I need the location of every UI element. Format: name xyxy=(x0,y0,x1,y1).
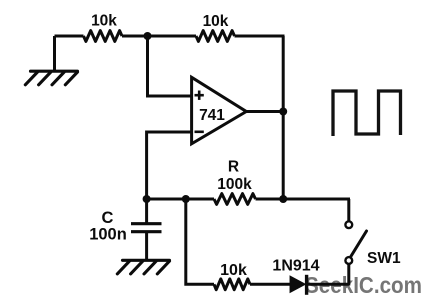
wire: bottom rail to diode xyxy=(250,283,291,286)
wire: GND1 up to top rail xyxy=(53,36,56,71)
op-amp U1 741 triangle xyxy=(192,77,247,144)
wire: down to switch top terminal xyxy=(347,199,350,221)
resistor R 100k xyxy=(214,194,256,205)
node: RC junction xyxy=(143,195,151,203)
wire: top rail left lead xyxy=(55,35,84,38)
wire: non-inverting input (junction down and right to op-amp +) xyxy=(148,36,192,96)
wire: op-amp output to bus xyxy=(246,110,284,113)
wire: middle rail right xyxy=(256,198,351,201)
square wave output symbol xyxy=(333,91,401,136)
capacitor C 100n plates xyxy=(145,199,148,223)
node: junction top rail / non-inverting input xyxy=(144,32,152,40)
ground GND1 (top-left) xyxy=(25,71,77,85)
svg-text:C: C xyxy=(102,209,114,227)
svg-text:10k: 10k xyxy=(220,262,247,279)
svg-text:100n: 100n xyxy=(89,226,127,244)
node: output junction on bus xyxy=(279,108,287,116)
wire: right vertical feedback bus xyxy=(282,36,285,199)
resistor R_C 10k (bottom) xyxy=(214,279,250,290)
ground GND2 (below capacitor) xyxy=(117,260,169,274)
svg-text:SW1: SW1 xyxy=(367,250,401,267)
node: branch to diode leg xyxy=(182,195,190,203)
wire: top rail middle xyxy=(122,35,196,38)
wire: capacitor to GND2 xyxy=(145,233,148,260)
wire: inverting input (op-amp - left and down to RC node) xyxy=(147,132,191,199)
wire: diode to switch leg xyxy=(307,283,349,286)
svg-text:1N914: 1N914 xyxy=(272,258,319,275)
op-amp - input symbol xyxy=(195,131,204,134)
node: bus to middle rail junction xyxy=(279,195,287,203)
svg-text:R: R xyxy=(228,159,239,176)
op-amp + input symbol xyxy=(195,91,204,100)
diode D1 1N914 xyxy=(290,277,305,293)
switch SW1 bottom terminal xyxy=(345,257,352,264)
svg-text:741: 741 xyxy=(199,107,225,124)
wire: top rail right lead xyxy=(235,35,285,38)
svg-text:10k: 10k xyxy=(203,13,229,30)
wire: middle rail left xyxy=(147,198,214,201)
resistor R_B 10k (top feedback) xyxy=(196,31,235,42)
switch SW1 top terminal xyxy=(345,221,352,228)
resistor R_A 10k (top-left) xyxy=(84,31,123,42)
svg-text:100k: 100k xyxy=(217,176,252,193)
wire: branch down-left leg to bottom rail xyxy=(186,199,214,284)
svg-text:10k: 10k xyxy=(91,13,117,30)
wire: switch bottom to bottom rail xyxy=(347,264,350,286)
switch SW1 blade xyxy=(351,231,367,257)
